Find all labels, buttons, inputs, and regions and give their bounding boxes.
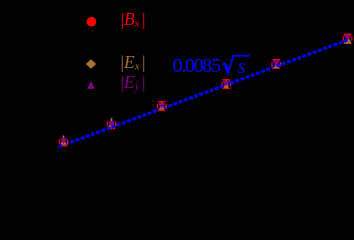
fit label s under radical (238, 57, 246, 77)
legend text |Ey| (121, 74, 146, 92)
legend text |Bx| (121, 11, 146, 29)
data point P6: Bx circle+errorbars (red), Ex diamond (brown), Ey triangle (purple) (343, 34, 353, 44)
data point P4: Bx circle+errorbars (red), Ex diamond (brown), Ey triangle (purple) (221, 79, 231, 89)
data point P1: Bx circle+errorbars (red), Ex diamond (brown), Ey triangle (purple) (59, 136, 69, 147)
legend text |Ex| (121, 54, 146, 72)
data point P3: Bx circle+errorbars (red), Ex diamond (brown), Ey triangle (purple) (157, 101, 167, 111)
data point P2: Bx circle+errorbars (red), Ex diamond (brown), Ey triangle (purple) (107, 118, 117, 129)
legend marker purple triangle |Ey| (87, 81, 95, 89)
radical sign of sqrt(s) (223, 56, 250, 74)
fit line (blue dashed) (58, 40, 348, 147)
legend marker red circle |Bx| (87, 17, 97, 27)
fit label 0.0085 (173, 56, 220, 76)
data point P5: Bx circle+errorbars (red), Ex diamond (brown), Ey triangle (purple) (271, 59, 281, 69)
legend marker brown diamond |Ex| (86, 59, 96, 69)
